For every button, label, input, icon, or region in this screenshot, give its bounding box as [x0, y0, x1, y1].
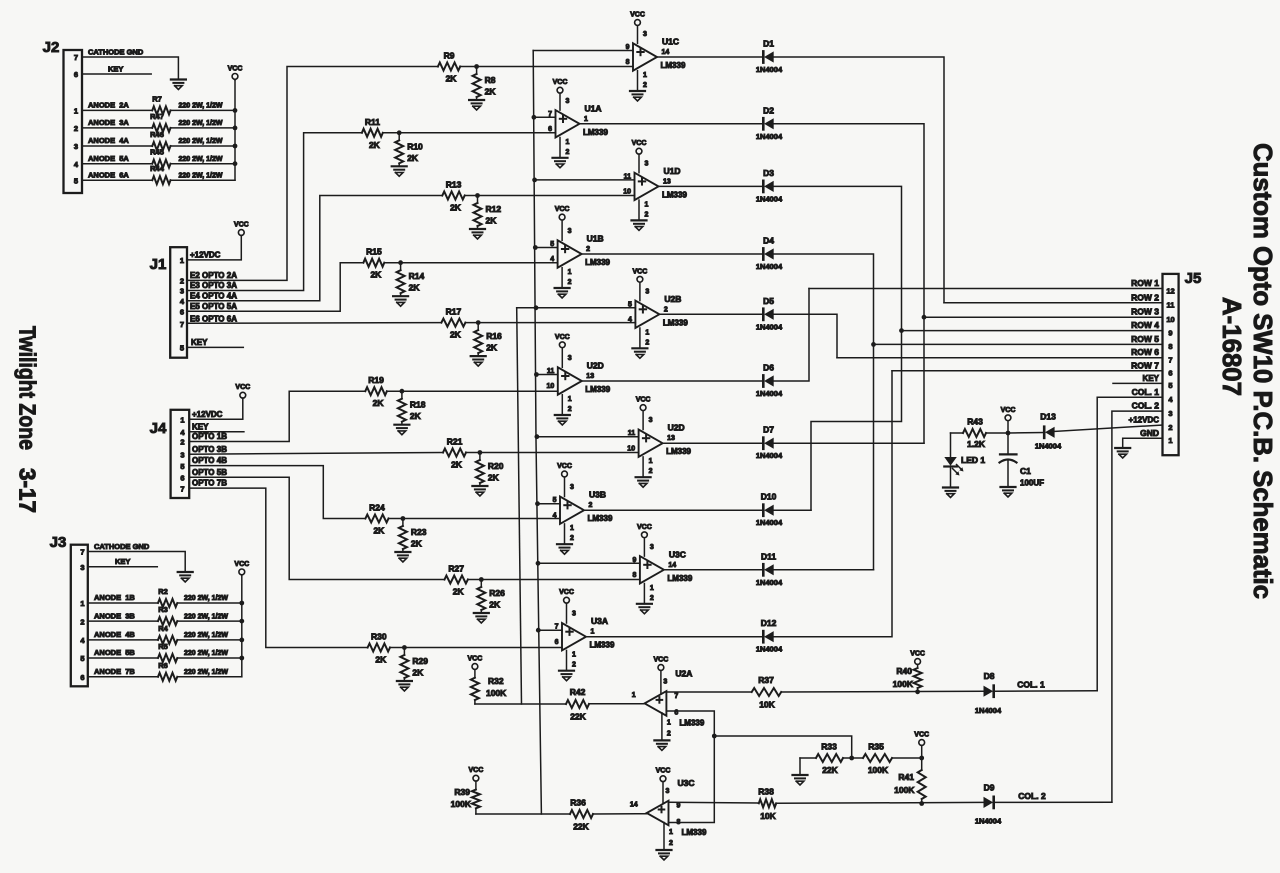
wire R11 junction to comparator minus input	[383, 132, 556, 134]
svg-text:4: 4	[553, 512, 557, 519]
wire comparator output to D3	[659, 185, 764, 187]
resistor R16 2K (shunt to ground)	[474, 323, 502, 357]
svg-text:ROW 5: ROW 5	[1131, 334, 1159, 344]
svg-text:VCC: VCC	[228, 65, 243, 72]
svg-text:7: 7	[74, 53, 78, 62]
wire J1 pin 7 E6 OPTO 6A to R17	[187, 314, 441, 323]
svg-text:7: 7	[674, 693, 678, 700]
junction J2 R7 to VCC bus	[233, 108, 238, 113]
svg-text:ROW 7: ROW 7	[1131, 360, 1159, 370]
junction R13/R12	[475, 193, 480, 198]
junction J3 R2 to VCC bus	[239, 601, 244, 606]
wire D7 to ROW 3 vertical	[774, 442, 924, 444]
svg-text:2: 2	[645, 211, 649, 218]
svg-text:1: 1	[566, 139, 570, 146]
connector J4	[150, 410, 190, 498]
resistor R3 220 ohm with wire J3 ANODE row	[88, 605, 242, 625]
svg-text:GND: GND	[1140, 428, 1159, 438]
wire D13 cathode to VCC node	[1008, 432, 1044, 435]
op-amp U1A (LM339 comparator)	[548, 79, 608, 168]
resistor R38 10K	[758, 787, 776, 821]
svg-text:ANODE 5A: ANODE 5A	[88, 154, 129, 163]
svg-text:R23: R23	[411, 527, 427, 537]
svg-text:1N4004: 1N4004	[756, 194, 783, 203]
svg-text:4: 4	[80, 636, 85, 645]
svg-text:ANODE 4B: ANODE 4B	[94, 630, 135, 639]
resistor R7 220 ohm with wire J2 ANODE row	[82, 94, 235, 114]
svg-text:2: 2	[664, 306, 668, 313]
svg-text:R16: R16	[486, 331, 502, 341]
svg-text:6: 6	[180, 308, 184, 317]
wire threshold bus to U2B + input	[517, 307, 636, 309]
svg-text:1: 1	[645, 201, 649, 208]
svg-text:5: 5	[628, 301, 632, 308]
wire threshold bus to U1C + input	[533, 50, 633, 52]
junction R15/R14	[398, 260, 403, 265]
wire threshold bus vertical (comparator + inputs)	[533, 51, 541, 815]
resistor R32 100K	[471, 676, 507, 704]
svg-text:2: 2	[669, 840, 673, 847]
svg-text:ROW 6: ROW 6	[1131, 347, 1159, 357]
diode D3 1N4004	[756, 168, 783, 204]
svg-text:3: 3	[572, 611, 576, 618]
junction bus at U1D	[532, 178, 537, 183]
wire J1 pin 2 E2 OPTO 2A to R9	[187, 67, 438, 281]
svg-text:4: 4	[180, 428, 185, 437]
wire U2A - input pin 6 to oscillator node	[666, 711, 714, 736]
resistor R14 2K (shunt to ground)	[397, 263, 425, 297]
svg-text:R24: R24	[369, 503, 385, 513]
svg-text:R36: R36	[570, 798, 586, 808]
svg-text:14: 14	[630, 802, 638, 809]
svg-text:VCC: VCC	[1001, 407, 1016, 414]
svg-text:220 2W, 1/2W: 220 2W, 1/2W	[184, 650, 228, 657]
wire comparator output to D6	[582, 380, 764, 382]
svg-text:VCC: VCC	[630, 12, 645, 19]
svg-text:5: 5	[180, 462, 184, 471]
svg-text:8: 8	[1168, 342, 1172, 351]
svg-text:100K: 100K	[451, 799, 472, 809]
resistor R17 2K (series)	[441, 307, 465, 340]
svg-text:2K: 2K	[488, 473, 500, 483]
svg-text:10: 10	[1166, 315, 1174, 324]
svg-text:1: 1	[643, 72, 647, 79]
svg-text:2K: 2K	[446, 74, 458, 84]
wire J5 KEY stub	[1113, 374, 1163, 384]
resistor R23 2K (shunt to ground)	[399, 519, 427, 553]
resistor R40 100K	[893, 666, 922, 692]
wire J2 pin 6 KEY stub	[82, 65, 151, 75]
svg-text:13: 13	[586, 373, 594, 380]
svg-text:E4 OPTO 4A: E4 OPTO 4A	[190, 291, 237, 300]
svg-text:E6 OPTO 6A: E6 OPTO 6A	[190, 314, 237, 323]
svg-text:11: 11	[1167, 301, 1175, 310]
wire D4 down to ROW 5 and D11	[774, 254, 874, 570]
wire comparator output to D7	[663, 442, 764, 444]
wire J4 pin 6 OPTO 5B to R27	[189, 468, 444, 580]
ground (J3 cathode)	[178, 572, 193, 582]
svg-text:D1: D1	[763, 39, 774, 49]
svg-text:D6: D6	[763, 363, 774, 373]
wire R19 junction to comparator minus input	[387, 390, 558, 392]
svg-text:R37: R37	[758, 675, 774, 685]
wire D1 to ROW 2	[774, 57, 944, 303]
junction bus at U2D	[534, 372, 539, 377]
wire J1 pin 6 E5 OPTO 5A to R15	[187, 263, 363, 312]
wire threshold bus to U1D + input	[535, 179, 635, 181]
svg-text:1: 1	[180, 415, 184, 424]
svg-text:LM339: LM339	[663, 318, 688, 327]
svg-text:OPTO 4B: OPTO 4B	[192, 456, 227, 465]
junction VCC node	[1006, 431, 1011, 436]
svg-text:8: 8	[677, 819, 681, 826]
ground (C1)	[1001, 487, 1016, 497]
junction ROW 5	[871, 342, 876, 347]
svg-text:R29: R29	[412, 656, 428, 666]
svg-text:1.2K: 1.2K	[967, 439, 986, 449]
svg-text:VCC: VCC	[553, 79, 568, 86]
svg-text:LM339: LM339	[661, 61, 686, 70]
svg-text:R33: R33	[821, 742, 837, 752]
svg-text:E2 OPTO 2A: E2 OPTO 2A	[190, 271, 237, 280]
svg-text:3: 3	[74, 142, 78, 151]
power VCC (R32)	[468, 656, 483, 678]
svg-text:1N4004: 1N4004	[975, 706, 1002, 715]
svg-text:2K: 2K	[412, 668, 424, 678]
svg-text:100K: 100K	[868, 765, 889, 775]
svg-text:OPTO 3B: OPTO 3B	[192, 445, 227, 454]
capacitor C1 100UF	[1000, 433, 1045, 488]
svg-text:LM339: LM339	[590, 641, 615, 650]
resistor R33 22K	[800, 742, 852, 776]
svg-text:6: 6	[80, 673, 84, 682]
svg-text:U3B: U3B	[589, 490, 606, 500]
svg-text:ANODE 3B: ANODE 3B	[94, 611, 135, 620]
resistor R42 22K	[566, 687, 589, 722]
svg-text:1: 1	[632, 692, 636, 699]
svg-text:KEY: KEY	[192, 422, 209, 431]
junction bus at U3C	[536, 561, 541, 566]
wire net ROW 2 to J5	[944, 292, 1163, 303]
svg-text:2K: 2K	[369, 140, 381, 150]
svg-text:10: 10	[627, 445, 635, 452]
svg-text:D9: D9	[984, 783, 995, 793]
wire comparator output to D11	[664, 569, 763, 571]
junction bus at U3A	[536, 628, 541, 633]
svg-text:1N4004: 1N4004	[756, 65, 783, 74]
wire node down to U3C - input pin 8	[669, 736, 715, 823]
wire R39 to R36 / threshold bus	[476, 813, 570, 815]
svg-text:R15: R15	[366, 247, 382, 257]
junction J2 R47 to VCC bus	[233, 126, 238, 131]
junction R30/R29	[402, 645, 407, 650]
svg-text:LED 1: LED 1	[961, 455, 985, 465]
svg-text:11: 11	[624, 173, 632, 180]
resistor R30 2K (series)	[368, 632, 390, 665]
connector J2	[43, 39, 82, 193]
wire J3 pin 3 KEY stub	[88, 557, 158, 567]
svg-text:R44: R44	[150, 164, 165, 173]
wire R21 junction to comparator minus input	[466, 452, 639, 454]
svg-text:2: 2	[180, 277, 184, 286]
svg-text:2: 2	[572, 662, 576, 669]
wire D12 up to ROW 7	[774, 371, 892, 637]
power VCC (R39)	[469, 767, 484, 789]
svg-text:1: 1	[584, 116, 588, 123]
svg-text:3: 3	[566, 98, 570, 105]
svg-text:R9: R9	[444, 51, 455, 61]
svg-text:2: 2	[643, 82, 647, 89]
svg-text:D10: D10	[761, 492, 777, 502]
svg-text:J1: J1	[150, 256, 167, 273]
junction ROW 3	[922, 315, 927, 320]
svg-text:C1: C1	[1020, 466, 1031, 476]
resistor R26 2K (shunt to ground)	[477, 580, 505, 614]
wire J4 pin 3 OPTO 3B to R21	[189, 445, 443, 454]
resistor R47 220 ohm with wire J2 ANODE row	[82, 112, 235, 132]
wire J1 pin 4 E4 OPTO 4A to R13	[187, 196, 442, 301]
resistor R44 220 ohm with wire J2 ANODE row	[82, 164, 235, 184]
ground (R16)	[471, 356, 486, 366]
wire J3 pin 7 CATHODE GND to ground	[88, 542, 185, 572]
resistor R8 2K (shunt to ground)	[473, 67, 497, 101]
svg-text:VCC: VCC	[555, 206, 570, 213]
svg-text:3: 3	[568, 228, 572, 235]
svg-text:5: 5	[80, 654, 84, 663]
junction R24/R23	[401, 516, 406, 521]
wire J1 pin 3 E3 OPTO 3A to R11	[187, 133, 362, 291]
svg-text:E3 OPTO 3A: E3 OPTO 3A	[190, 281, 237, 290]
resistor R9 2K (series)	[438, 51, 460, 84]
wire VCC bus J2	[234, 80, 236, 180]
junction R21/R20	[478, 450, 483, 455]
wire threshold bus to U3B + input	[538, 503, 561, 505]
op-amp U2D (LM339 comparator)	[547, 334, 611, 425]
wire R15 junction to comparator minus input	[384, 262, 557, 264]
svg-text:CATHODE GND: CATHODE GND	[94, 542, 150, 551]
wire J1 pin 1 +12VDC to VCC	[187, 236, 241, 260]
svg-text:VCC: VCC	[654, 657, 669, 664]
svg-text:2K: 2K	[486, 343, 498, 353]
svg-text:J3: J3	[50, 534, 67, 551]
svg-text:8: 8	[632, 572, 636, 579]
diode D4 1N4004	[756, 236, 783, 272]
svg-text:ROW 1: ROW 1	[1131, 278, 1159, 288]
svg-text:10K: 10K	[760, 811, 776, 821]
svg-text:4: 4	[1168, 395, 1173, 404]
diode D2 1N4004	[756, 105, 783, 141]
svg-text:1: 1	[645, 329, 649, 336]
wire R42 to U2A output pin 1	[589, 703, 645, 705]
svg-text:R46: R46	[150, 130, 164, 139]
wire D5 to ROW 6	[774, 314, 837, 357]
svg-text:2: 2	[589, 502, 593, 509]
svg-text:D4: D4	[763, 236, 774, 246]
wire threshold bus to U3C + input	[538, 562, 640, 564]
svg-text:ANODE 1B: ANODE 1B	[94, 593, 135, 602]
resistor R2 220 ohm with wire J3 ANODE row	[88, 587, 242, 607]
svg-text:VCC: VCC	[557, 463, 572, 470]
svg-text:1: 1	[572, 652, 576, 659]
svg-text:1: 1	[1168, 436, 1172, 445]
svg-text:1: 1	[650, 585, 654, 592]
svg-text:22K: 22K	[570, 712, 586, 722]
svg-text:4: 4	[628, 317, 632, 324]
svg-text:1: 1	[667, 719, 671, 726]
power VCC (R41)	[914, 732, 929, 759]
svg-text:2K: 2K	[373, 398, 385, 408]
svg-text:2: 2	[650, 595, 654, 602]
wire R32 to threshold node	[475, 703, 566, 705]
wire node to R33/R35 junction	[714, 736, 851, 758]
wire J4 pin 7 OPTO 7B to R30	[189, 479, 367, 648]
svg-text:U2D: U2D	[668, 423, 685, 433]
power VCC (J2 pull-up bus)	[228, 65, 243, 80]
wire U3C + input pin 9 to R38	[669, 801, 759, 804]
wire D3 down to ROW 4 and D10 link	[774, 186, 902, 510]
svg-text:LM339: LM339	[585, 258, 610, 267]
svg-text:ANODE 3A: ANODE 3A	[88, 118, 129, 127]
junction R17/R16	[476, 320, 481, 325]
svg-text:VCC: VCC	[234, 222, 249, 229]
svg-text:6: 6	[548, 126, 552, 133]
svg-text:1N4004: 1N4004	[756, 645, 783, 654]
svg-text:1: 1	[80, 599, 84, 608]
svg-text:220 2W, 1/2W: 220 2W, 1/2W	[184, 669, 228, 676]
svg-text:22K: 22K	[573, 822, 589, 832]
junction R41 bottom	[919, 801, 924, 806]
svg-text:220 2W, 1/2W: 220 2W, 1/2W	[179, 138, 223, 145]
resistor R11 2K (series)	[362, 117, 383, 150]
svg-text:R2: R2	[158, 587, 168, 596]
resistor R37 10K	[752, 675, 782, 710]
svg-text:2K: 2K	[411, 539, 423, 549]
ground (R10)	[392, 166, 407, 176]
svg-text:2: 2	[568, 279, 572, 286]
svg-text:COL. 1: COL. 1	[1017, 680, 1045, 690]
svg-text:3: 3	[1168, 409, 1172, 418]
svg-text:1: 1	[568, 269, 572, 276]
wire threshold bus to U1B + input	[535, 247, 557, 249]
svg-text:D3: D3	[763, 168, 774, 178]
svg-text:220 2W, 1/2W: 220 2W, 1/2W	[179, 172, 223, 179]
wire net ROW 1 to J5	[809, 278, 1163, 289]
wire net COL. 1 from J5 pin 4	[1097, 387, 1162, 691]
svg-text:R47: R47	[150, 112, 164, 121]
svg-text:3: 3	[570, 484, 574, 491]
resistor R27 2K (series)	[445, 564, 468, 597]
svg-text:VCC: VCC	[235, 384, 250, 391]
op-amp U2B (LM339 comparator)	[628, 268, 688, 358]
ground (J2 cathode)	[171, 80, 186, 90]
svg-text:3: 3	[180, 287, 184, 296]
wire R24 junction to comparator minus input	[389, 518, 561, 520]
op-amp U3A (LM339 comparator)	[555, 589, 615, 681]
connector J1	[150, 247, 187, 358]
resistor R20 2K (shunt to ground)	[476, 453, 504, 487]
svg-text:VCC: VCC	[632, 140, 647, 147]
svg-text:2K: 2K	[373, 526, 385, 536]
svg-text:2: 2	[180, 438, 184, 447]
svg-text:2: 2	[570, 535, 574, 542]
svg-text:2K: 2K	[486, 216, 498, 226]
op-amp U3B (LM339 comparator)	[553, 463, 613, 554]
junction J3 R5 to VCC bus	[239, 656, 244, 661]
power VCC (J1 +12VDC)	[234, 222, 249, 237]
svg-text:D8: D8	[984, 671, 995, 681]
wire GND from J5 pin 1 to ground	[1123, 428, 1163, 448]
junction J2 R45 to VCC bus	[233, 161, 238, 166]
svg-text:R8: R8	[485, 75, 496, 85]
wire comparator output to D2	[580, 123, 764, 125]
svg-text:7: 7	[180, 484, 184, 493]
resistor R46 220 ohm with wire J2 ANODE row	[82, 130, 235, 150]
svg-text:3: 3	[80, 563, 84, 572]
svg-text:U3C: U3C	[669, 549, 686, 559]
svg-text:KEY: KEY	[1143, 374, 1160, 383]
svg-text:1: 1	[591, 629, 595, 636]
svg-text:VCC: VCC	[910, 651, 925, 658]
svg-text:3: 3	[180, 450, 184, 459]
svg-text:Twilight Zone: Twilight Zone	[15, 326, 41, 450]
svg-text:3: 3	[649, 417, 653, 424]
svg-text:1N4004: 1N4004	[1035, 442, 1062, 451]
wire threshold bus to U1A + input	[534, 116, 556, 118]
svg-text:1: 1	[568, 396, 572, 403]
svg-text:7: 7	[180, 320, 184, 329]
op-amp U1C (LM339 comparator)	[626, 12, 686, 102]
diode D10 1N4004	[756, 492, 783, 528]
ground (R23)	[395, 552, 410, 562]
svg-text:2K: 2K	[450, 203, 462, 213]
svg-text:11: 11	[628, 430, 636, 437]
resistor R13 2K (series)	[442, 180, 464, 213]
wire J4 pin 4 KEY stub	[189, 422, 244, 431]
svg-text:1N4004: 1N4004	[756, 262, 783, 271]
svg-text:ANODE 7B: ANODE 7B	[94, 667, 135, 676]
wire net COL. 2 from J5 pin 3	[1112, 401, 1163, 803]
svg-text:2: 2	[649, 468, 653, 475]
svg-text:R27: R27	[448, 564, 464, 574]
junction bus at U1B	[533, 245, 538, 250]
svg-text:2: 2	[586, 246, 590, 253]
svg-text:R26: R26	[489, 588, 505, 598]
ground (R26)	[474, 613, 489, 623]
op-amp U3C (LM339 comparator)	[630, 768, 707, 860]
power VCC (main supply node)	[1001, 407, 1016, 433]
svg-text:OPTO 1B: OPTO 1B	[192, 432, 227, 441]
resistor R41 100K	[894, 758, 926, 804]
svg-text:R17: R17	[446, 307, 462, 317]
svg-text:VCC: VCC	[234, 561, 249, 568]
svg-text:KEY: KEY	[115, 557, 130, 566]
svg-text:R14: R14	[409, 271, 425, 281]
svg-text:VCC: VCC	[559, 589, 574, 596]
svg-text:4: 4	[550, 256, 554, 263]
svg-text:9: 9	[632, 557, 636, 564]
svg-text:1N4004: 1N4004	[756, 322, 783, 331]
svg-text:COL. 2: COL. 2	[1018, 791, 1046, 801]
svg-text:R38: R38	[758, 787, 774, 797]
svg-text:VCC: VCC	[633, 268, 648, 275]
svg-text:LM339: LM339	[666, 447, 691, 456]
svg-text:LM339: LM339	[667, 574, 692, 583]
svg-text:5: 5	[553, 497, 557, 504]
svg-text:1N4004: 1N4004	[756, 578, 783, 587]
svg-text:R6: R6	[158, 661, 168, 670]
wire VCC bus J3	[241, 576, 243, 677]
wire threshold bus to U2D + input	[537, 436, 639, 438]
